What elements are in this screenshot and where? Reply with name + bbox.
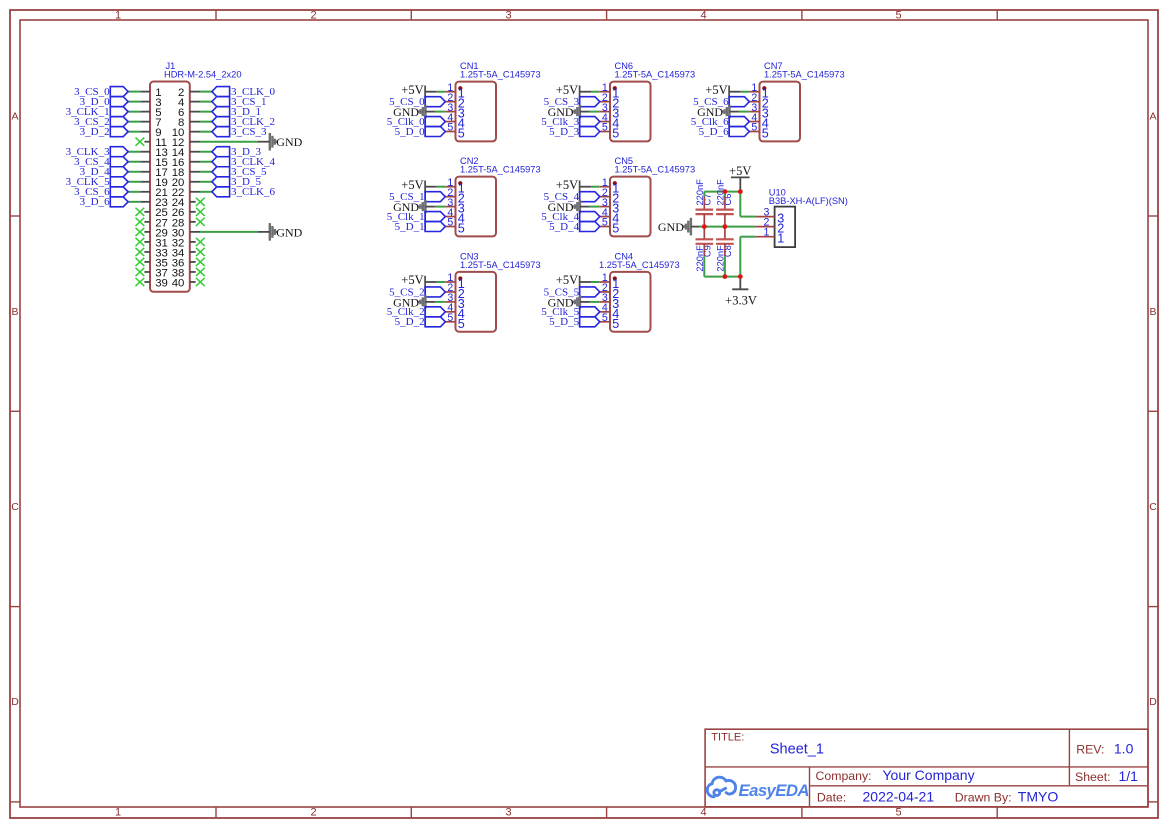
CN1 net tag spine [424,97,426,137]
ground GND at CN7 symbol [722,105,739,119]
svg-text:5: 5 [751,122,757,134]
wire C6 to +5V net [724,192,726,197]
CN3 pin 5 stub [445,321,455,323]
svg-text:D: D [11,696,19,708]
junction 5 [723,274,728,279]
J1 pin 28 no-connect X [196,218,205,226]
J1 pin 17 stub [140,171,150,173]
CN4 pin 2 stub [600,291,610,293]
svg-text:A: A [11,111,18,123]
ground GND at CN4 symbol [573,295,590,309]
svg-text:1.25T-5A_C145973: 1.25T-5A_C145973 [599,260,680,270]
power flag +5V at CN4 symbol [580,276,592,288]
capacitor C9 [696,227,714,257]
CN4 pin 4 stub [600,311,610,313]
J1 pin 15 stub [140,161,150,163]
top ruler tick 3 [606,10,608,20]
wire J1 pin 18 to net tag [200,171,212,173]
wire CN5 pin 3 GND [589,206,599,208]
wire C8 to +3.3V net [724,256,726,276]
net tag 5_Clk_2 [425,307,445,317]
net tag 3_CS_4 [110,157,128,167]
J1 pin 1 stub [140,91,150,93]
net tag 3_D_1 [212,107,230,117]
wire J1 pin 17 to net tag [128,171,140,173]
J1 pin 37 stub [144,271,150,273]
CN6 pin 3 stub [600,111,610,113]
svg-text:2022-04-21: 2022-04-21 [863,789,935,805]
title block outline [705,729,1148,807]
svg-text:3_CLK_6: 3_CLK_6 [231,186,276,198]
svg-text:5_D_0: 5_D_0 [395,126,425,138]
wire CN5 pin 1 +5V [591,186,600,188]
svg-text:TMYO: TMYO [1018,789,1059,805]
J1 pin 2 stub [190,91,200,93]
title block divider company/date [810,785,1149,787]
connector CN1 body [456,82,497,142]
CN6 pin 5 stub [600,131,610,133]
wire C9 to +3.3V net [703,256,705,276]
power flag +5V at CN5 symbol [580,181,592,193]
svg-text:5_D_4: 5_D_4 [549,221,579,233]
wire J1 pin 19 to net tag [128,181,140,183]
svg-text:1: 1 [115,10,121,22]
svg-text:1.0: 1.0 [1114,740,1134,756]
svg-text:Date:: Date: [817,791,846,805]
J1 pin 8 stub [190,121,200,123]
J1 pin 33 no-connect X [136,248,145,256]
CN1 pin 5 stub [445,131,455,133]
CN5 pin 2 stub [600,196,610,198]
net tag 5_D_5 [580,317,600,327]
CN2 pin 5 stub [445,226,455,228]
wire C7 to +5V net [703,192,705,197]
J1 pin 40 no-connect X [196,278,205,286]
left ruler tick 2 [10,410,20,412]
net tag 3_CS_1 [212,97,230,107]
wire +5V to U10 pin 3 vertical [739,192,741,217]
connector U10 body [775,207,796,248]
J1 pin 13 stub [140,151,150,153]
CN6 pin 2 stub [600,101,610,103]
J1 pin 39 no-connect X [136,278,145,286]
svg-text:5: 5 [612,127,619,141]
left ruler tick 4 [10,801,20,803]
capacitor C7 [696,197,714,227]
CN4 net tag spine [579,287,581,327]
wire J1 pin 22 to net tag [200,191,212,193]
svg-text:5: 5 [447,122,453,134]
J1 pin 18 stub [190,171,200,173]
bottom ruler tick 2 [410,807,412,818]
J1 pin 11 no-connect X [136,138,145,146]
wire CN6 pin 1 +5V [591,91,600,93]
CN1 pin 4 stub [445,121,455,123]
J1 pin 21 stub [140,191,150,193]
svg-text:Company:: Company: [816,769,872,783]
wire CN1 pin 1 +5V [437,91,446,93]
net tag 3_CS_2 [110,117,128,127]
svg-text:TITLE:: TITLE: [711,732,744,744]
ground GND at CN5 symbol [573,200,590,214]
CN3 pin 1 polarity dot [458,276,462,280]
svg-text:B: B [1149,306,1156,318]
J1 pin 24 stub [190,201,196,203]
net tag 5_Clk_1 [425,212,445,222]
svg-text:GND: GND [658,220,684,234]
J1 pin 38 no-connect X [196,268,205,276]
bottom ruler tick 4 [801,807,803,818]
power flag +3.3V symbol [732,277,748,290]
EasyEDA logo cloud [707,777,735,797]
bottom ruler tick 5 [996,807,998,818]
svg-text:Your Company: Your Company [883,767,975,783]
svg-text:5_D_5: 5_D_5 [549,316,579,328]
net tag 5_Clk_3 [580,117,600,127]
net tag 5_CS_4 [580,192,600,202]
capacitor C6 [716,197,734,227]
connector CN4 body [610,272,651,332]
J1 pin 27 stub [144,221,150,223]
svg-text:5: 5 [612,317,619,331]
J1 pin 7 stub [140,121,150,123]
svg-text:4: 4 [700,807,706,819]
svg-text:5: 5 [602,217,608,229]
J1 pin 40 stub [190,281,196,283]
wire J1 pin 2 to net tag [200,91,212,93]
junction 2 [738,189,743,194]
J1 pin 32 stub [190,241,196,243]
svg-text:39: 39 [155,277,168,289]
CN7 pin 1 stub [749,91,759,93]
connector CN5 body [610,177,651,237]
svg-text:+5V: +5V [705,83,727,97]
connector CN7 body [760,82,801,142]
CN7 pin 2 stub [749,101,759,103]
net tag 5_D_6 [729,127,749,137]
net tag 3_CS_0 [110,87,128,97]
net tag 3_CS_3 [212,127,230,137]
svg-text:5: 5 [458,222,465,236]
left ruler tick 3 [10,606,20,608]
svg-text:+5V: +5V [556,273,578,287]
svg-text:5: 5 [458,127,465,141]
J1 pin 24 no-connect X [196,198,205,206]
J1 right pin numbers 2-40 [172,87,185,289]
net tag 5_Clk_0 [425,117,445,127]
J1 pin 35 stub [144,261,150,263]
svg-text:1.25T-5A_C145973: 1.25T-5A_C145973 [460,70,541,80]
net tag 3_D_4 [110,167,128,177]
net tag 5_CS_2 [425,287,445,297]
svg-text:1.25T-5A_C145973: 1.25T-5A_C145973 [615,70,696,80]
J1 left pin numbers 1-39 [155,87,168,289]
CN5 pin 5 stub [600,226,610,228]
CN4 pin 1 polarity dot [613,276,617,280]
svg-text:5_D_2: 5_D_2 [395,316,425,328]
wire CN7 pin 1 +5V [741,91,750,93]
junction 1 [723,189,728,194]
top ruler tick 1 [215,10,217,20]
svg-text:A: A [1149,111,1156,123]
ground GND at CN3 symbol [418,295,435,309]
wire CN3 pin 1 +5V [437,281,446,283]
J1 pin 20 stub [190,181,200,183]
net tag 5_CS_1 [425,192,445,202]
wire CN1 pin 3 GND [435,111,445,113]
net tag 5_CS_3 [580,97,600,107]
CN7 pin 1 polarity dot [762,86,766,90]
net tag 5_D_1 [425,222,445,232]
svg-text:GND: GND [276,135,302,149]
CN3 net tag spine [424,287,426,327]
svg-text:+5V: +5V [556,83,578,97]
capacitor C8 [716,227,734,257]
wire +3.3V net horizontal [704,276,740,278]
wire J1 pin 7 to net tag [128,121,140,123]
ground GND at CN2 symbol [418,200,435,214]
CN4 pin 1 stub [600,281,610,283]
wire J1 pin 4 to net tag [200,101,212,103]
svg-text:3: 3 [505,807,511,819]
J1 pin 25 stub [144,211,150,213]
wire CN3 pin 3 GND [435,301,445,303]
J1 pin 26 stub [190,211,196,213]
connector CN6 body [610,82,651,142]
J1 pin 33 stub [144,251,150,253]
top ruler tick 2 [410,10,412,20]
CN1 pin 1 stub [445,91,455,93]
wire J1 pin 30 to GND [200,231,258,233]
svg-text:HDR-M-2.54_2x20: HDR-M-2.54_2x20 [164,70,242,80]
CN3 pin 3 stub [445,301,455,303]
J1 pin 12 stub [190,141,200,143]
net tag 3_D_5 [212,177,230,187]
CN6 pin 4 stub [600,121,610,123]
CN4 pin 3 stub [600,301,610,303]
net tag 3_CLK_1 [110,107,128,117]
CN2 pin 4 stub [445,216,455,218]
svg-text:5_D_3: 5_D_3 [549,126,579,138]
top ruler tick 5 [996,10,998,20]
svg-text:+5V: +5V [556,178,578,192]
wire J1 pin 13 to net tag [128,151,140,153]
junction 3 [702,224,707,229]
svg-text:5_D_6: 5_D_6 [699,126,729,138]
J1 pin 26 no-connect X [196,208,205,216]
svg-text:5: 5 [602,312,608,324]
net tag 5_Clk_6 [729,117,749,127]
CN1 pin 2 stub [445,101,455,103]
wire GND net to U10 pin 2 [699,226,755,228]
svg-text:1/1: 1/1 [1119,768,1139,784]
wire J1 pin 8 to net tag [200,121,212,123]
svg-text:1.25T-5A_C145973: 1.25T-5A_C145973 [764,70,845,80]
J1 pin 34 stub [190,251,196,253]
svg-text:5: 5 [895,10,901,22]
J1 pin 31 no-connect X [136,238,145,246]
top ruler tick 4 [801,10,803,20]
svg-text:1: 1 [777,232,784,246]
title block REV column divider [1068,729,1070,786]
connector CN3 body [456,272,497,332]
wire CN7 pin 3 GND [739,111,749,113]
J1 pin 29 stub [144,231,150,233]
svg-text:B3B-XH-A(LF)(SN): B3B-XH-A(LF)(SN) [769,196,848,206]
J1 pin 10 stub [190,131,200,133]
J1 pin 32 no-connect X [196,238,205,246]
net tag 5_D_0 [425,127,445,137]
CN7 pin 4 stub [749,121,759,123]
wire J1 pin 21 to net tag [128,191,140,193]
U10 pin 3 stub [755,216,774,218]
wire CN6 pin 3 GND [589,111,599,113]
right ruler tick 3 [1148,606,1158,608]
net tag 3_CS_6 [110,187,128,197]
wire J1 pin 23 to net tag [128,201,140,203]
CN3 pin 2 stub [445,291,455,293]
ground GND at J1 pin 12 symbol [258,133,277,151]
wire CN2 pin 1 +5V [437,186,446,188]
svg-text:C: C [11,501,19,513]
CN2 pin 1 stub [445,186,455,188]
svg-text:C: C [1149,501,1157,513]
svg-text:B: B [11,306,18,318]
J1 pin 22 stub [190,191,200,193]
CN7 pin 3 stub [749,111,759,113]
ground GND at U10 symbol [684,218,700,236]
J1 pin 34 no-connect X [196,248,205,256]
wire J1 pin 14 to net tag [200,151,212,153]
CN4 pin 5 stub [600,321,610,323]
net tag 5_D_3 [580,127,600,137]
connector CN2 body [456,177,497,237]
net tag 3_CLK_4 [212,157,230,167]
title block logo cell divider [809,767,811,807]
svg-text:5: 5 [612,222,619,236]
CN2 net tag spine [424,192,426,232]
net tag 5_D_4 [580,222,600,232]
J1 pin 37 no-connect X [136,268,145,276]
net tag 5_Clk_4 [580,212,600,222]
left ruler tick 1 [10,215,20,217]
CN5 pin 4 stub [600,216,610,218]
net tag 3_CLK_3 [110,147,128,157]
J1 pin 27 no-connect X [136,218,145,226]
J1 pin 19 stub [140,181,150,183]
CN7 pin 5 stub [749,131,759,133]
J1 pin 23 stub [140,201,150,203]
net tag 5_D_2 [425,317,445,327]
svg-text:1.25T-5A_C145973: 1.25T-5A_C145973 [615,165,696,175]
junction 6 [738,274,743,279]
svg-text:3_D_2: 3_D_2 [80,126,110,138]
net tag 3_CLK_0 [212,87,230,97]
ground GND at CN1 symbol [418,105,435,119]
net tag 3_CS_5 [212,167,230,177]
svg-text:5: 5 [447,312,453,324]
J1 pin 30 stub [190,231,200,233]
wire +5V to U10 pin 3 horizontal [740,216,755,218]
CN2 pin 3 stub [445,206,455,208]
J1 pin 31 stub [144,241,150,243]
svg-text:+3.3V: +3.3V [725,293,757,307]
net tag 5_CS_0 [425,97,445,107]
title block divider under TITLE row [705,766,1148,768]
svg-text:GND: GND [276,225,302,239]
svg-text:3: 3 [505,10,511,22]
CN3 pin 1 stub [445,281,455,283]
CN6 pin 1 polarity dot [613,86,617,90]
junction 4 [723,224,728,229]
J1 pin 5 stub [140,111,150,113]
svg-text:2: 2 [310,10,316,22]
J1 pin 38 stub [190,271,196,273]
J1 pin 39 stub [144,281,150,283]
svg-text:REV:: REV: [1076,742,1104,756]
svg-text:+5V: +5V [729,164,751,178]
J1 pin 4 stub [190,101,200,103]
power flag +5V at CN2 symbol [425,181,437,193]
svg-text:+5V: +5V [401,83,423,97]
J1 pin 29 no-connect X [136,228,145,236]
svg-text:5_D_1: 5_D_1 [395,221,425,233]
svg-text:3_D_6: 3_D_6 [80,196,110,208]
net tag 3_D_0 [110,97,128,107]
connector J1 body [150,82,190,292]
net tag 5_Clk_5 [580,307,600,317]
bottom ruler tick 1 [215,807,217,818]
ground GND at J1 pin 30 symbol [258,223,277,241]
CN6 net tag spine [579,97,581,137]
svg-text:1.25T-5A_C145973: 1.25T-5A_C145973 [460,260,541,270]
svg-text:1.25T-5A_C145973: 1.25T-5A_C145973 [460,165,541,175]
svg-text:EasyEDA: EasyEDA [739,781,809,800]
power flag +5V at CN3 symbol [425,276,437,288]
CN6 pin 1 stub [600,91,610,93]
J1 pin 35 no-connect X [136,258,145,266]
J1 pin 11 stub [144,141,150,143]
power flag +5V at CN7 symbol [729,86,741,98]
wire CN4 pin 1 +5V [591,281,600,283]
J1 pin 28 stub [190,221,196,223]
J1 pin 3 stub [140,101,150,103]
svg-text:1: 1 [763,227,769,239]
svg-text:+5V: +5V [401,273,423,287]
wire J1 pin 5 to net tag [128,111,140,113]
svg-text:+5V: +5V [401,178,423,192]
ground GND at CN6 symbol [573,105,590,119]
U10 pin 1 stub [755,236,774,238]
svg-text:D: D [1149,696,1157,708]
svg-text:5: 5 [447,217,453,229]
power flag +5V at CN6 symbol [580,86,592,98]
net tag 3_CLK_6 [212,187,230,197]
net tag 5_CS_6 [729,97,749,107]
wire J1 pin 16 to net tag [200,161,212,163]
wire +5V net horizontal [704,191,740,193]
CN1 pin 3 stub [445,111,455,113]
net tag 3_D_2 [110,127,128,137]
svg-text:Drawn By:: Drawn By: [955,791,1012,805]
svg-text:5: 5 [895,807,901,819]
net tag 5_CS_5 [580,287,600,297]
J1 pin 6 stub [190,111,200,113]
wire J1 pin 3 to net tag [128,101,140,103]
U10 pin 2 stub [755,226,774,228]
J1 pin 14 stub [190,151,200,153]
right ruler tick 1 [1148,215,1158,217]
